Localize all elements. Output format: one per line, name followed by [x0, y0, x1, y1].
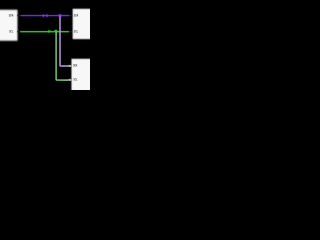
wire handle diamond on SDA bus (right) [45, 14, 48, 17]
wire handle diamond on SCL bus (left) [47, 30, 50, 33]
pin stub U2.SCL (dark) [69, 31, 72, 32]
wire SCL bus (U1.SCL to U2.SCL, green) [20, 31, 69, 33]
svg-text:SDA: SDA [73, 64, 78, 68]
svg-text:SCL: SCL [73, 77, 78, 81]
pin stub U1.SCL (dark) [17, 31, 20, 32]
svg-text:SCL: SCL [74, 29, 79, 33]
background [0, 0, 90, 90]
svg-text:SDA: SDA [9, 13, 14, 17]
IC U2 (top-right device body) [73, 9, 97, 39]
pin stub U1.SDA (dark) [17, 15, 20, 16]
wire SDA bus (U1.SDA to U2.SDA, purple) [21, 15, 70, 16]
junction node SDA (T at x=60) [59, 14, 62, 17]
IC U3 (bottom-right device body) [71, 59, 96, 97]
pin stub U2.SDA (dark) [69, 15, 72, 16]
wire SDA branch (junction down to U3.SDA, light purple) [60, 17, 68, 66]
pin U3.SCL (gray terminal) [68, 79, 71, 81]
svg-text:SCL: SCL [9, 29, 14, 33]
wire SCL branch (junction down to U3.SCL, light green) [56, 32, 68, 81]
pin U3.SDA (gray terminal) [68, 65, 71, 67]
wire handle diamond on SCL bus (right) [49, 30, 51, 32]
wire handle diamond on SDA bus (left) [42, 14, 45, 17]
IC U1 (left device body) [0, 10, 18, 41]
svg-text:SDA: SDA [74, 13, 79, 17]
junction node SCL (T at x=56) [55, 30, 58, 33]
